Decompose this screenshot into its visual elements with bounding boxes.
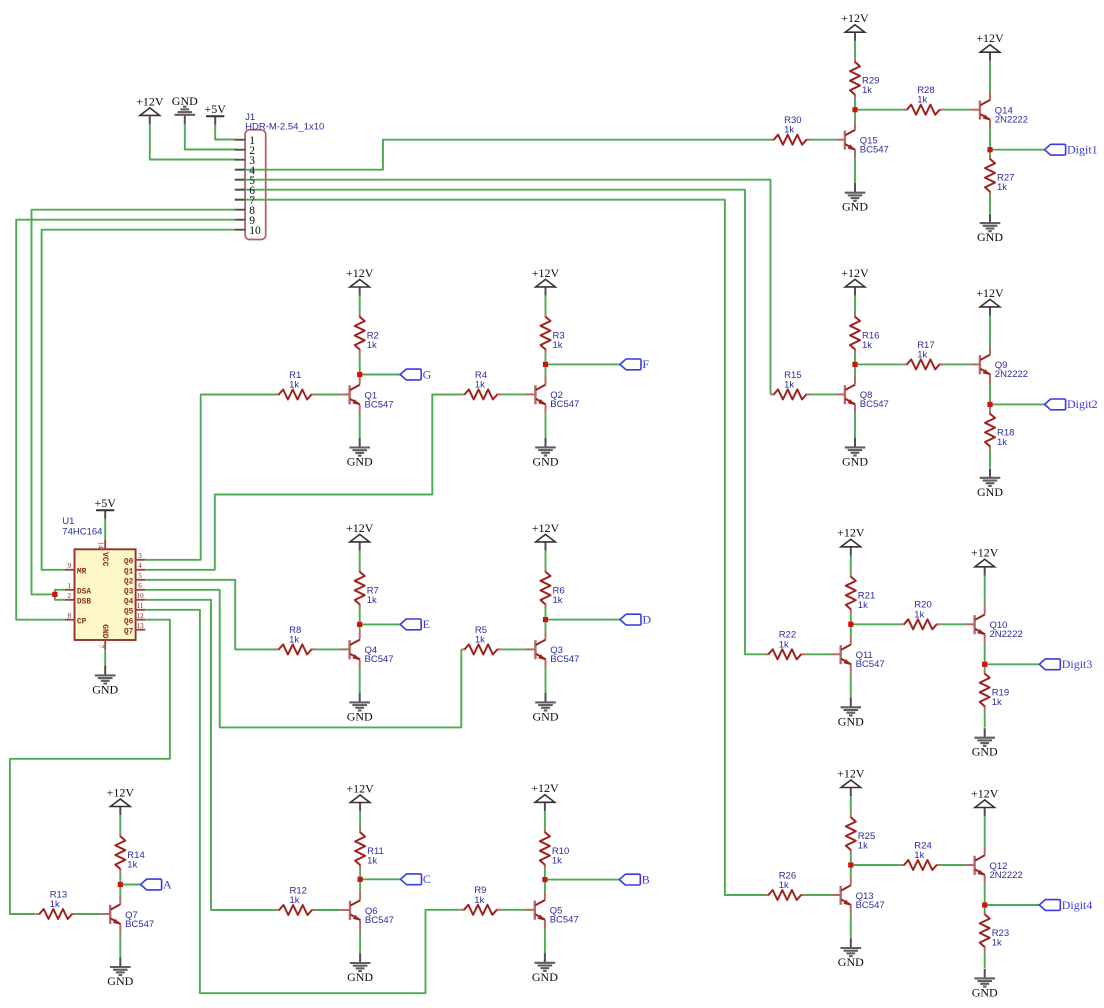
svg-text:Q0: Q0 — [124, 558, 134, 567]
wire Q11 emitter to ground — [850, 673, 852, 698]
wire Digit2 node to flag — [990, 403, 1045, 405]
resistor R20 — [901, 619, 941, 629]
power +5V near J1 — [204, 102, 226, 125]
wire +12V to Q12 collector — [984, 816, 986, 847]
svg-text:1k: 1k — [367, 595, 377, 606]
J1 pin 1 stub — [235, 139, 245, 141]
wire R25 to Q13 collector — [850, 854, 852, 877]
J1 pin 7 stub — [235, 199, 245, 201]
svg-text:5: 5 — [138, 572, 142, 580]
junction Q1 collector node — [357, 372, 362, 377]
wire R2 to Q1 collector — [359, 354, 361, 377]
transistor Q9 — [970, 346, 990, 383]
ground below Q8 — [842, 438, 868, 469]
resistor R1 — [276, 390, 316, 400]
wire R23 to ground — [984, 951, 986, 968]
wire J1 pin 6 to R22 (Digit3 drive) — [235, 190, 765, 655]
ground below R27 — [977, 214, 1003, 245]
svg-text:1k: 1k — [474, 895, 484, 906]
power +12V for Q4 — [346, 521, 374, 551]
wire Q1 emitter to ground — [359, 414, 361, 439]
wire R13 to Q7 base — [76, 913, 100, 915]
wire +12V to Q10 collector — [984, 576, 986, 607]
wire +12V to Q9 collector — [989, 316, 991, 347]
wire U1 Q1 to R4 (segment F) — [145, 395, 461, 570]
wire +12V to R29 — [854, 41, 856, 59]
svg-text:B: B — [642, 872, 650, 886]
svg-text:C: C — [423, 872, 431, 886]
resistor R27 — [985, 156, 995, 196]
wire R11 to Q6 collector — [359, 869, 361, 892]
U1 pin 1 (DSA) stub — [65, 589, 75, 591]
wire +12V to R3 — [545, 296, 547, 314]
resistor R5 — [461, 644, 501, 654]
junction Q8 collector node — [852, 362, 857, 367]
resistor R17 — [904, 359, 944, 369]
power +12V for Q6 — [346, 781, 374, 811]
wire R22 to Q11 base — [805, 653, 831, 655]
wire Q8 collector node to R17 — [855, 363, 904, 365]
resistor R13 — [36, 909, 76, 919]
power +12V for Q3 — [532, 521, 560, 551]
net flag F — [620, 357, 649, 371]
wire R14 to Q7 collector — [119, 873, 121, 896]
connector J1 HDR-M-2.54_1x10 — [245, 130, 266, 240]
resistor R26 — [765, 890, 805, 900]
svg-text:HDR-M-2.54_1x10: HDR-M-2.54_1x10 — [245, 122, 324, 133]
svg-text:Q1: Q1 — [124, 568, 134, 577]
U1 pin 2 (DSB) stub — [65, 599, 75, 601]
transistor Q15 — [835, 121, 855, 158]
transistor Q6 — [340, 892, 360, 929]
svg-text:1k: 1k — [917, 95, 927, 106]
wire Q3 emitter to ground — [545, 668, 547, 693]
junction U1 DSA/DSB tie — [52, 592, 57, 597]
svg-text:74HC164: 74HC164 — [62, 527, 102, 538]
wire Q4 collector node to flag E — [360, 623, 401, 625]
svg-text:1k: 1k — [914, 609, 924, 620]
svg-text:GND: GND — [107, 974, 133, 988]
wire Digit3 node to flag — [985, 663, 1040, 665]
power +12V for Q14 — [976, 31, 1004, 61]
wire R6 to Q3 collector — [545, 608, 547, 631]
transistor Q5 — [525, 892, 545, 929]
svg-text:+12V: +12V — [346, 781, 374, 795]
resistor R24 — [901, 860, 941, 870]
wire U1 DSA/DSB tie bracket — [55, 590, 65, 600]
net flag C — [401, 872, 431, 886]
power +12V for Q15 — [841, 11, 869, 41]
svg-text:1k: 1k — [475, 634, 485, 645]
svg-text:2N2222: 2N2222 — [990, 629, 1023, 640]
svg-text:1k: 1k — [290, 895, 300, 906]
transistor Q3 — [526, 631, 546, 668]
resistor R19 — [980, 670, 990, 710]
resistor R22 — [765, 649, 805, 659]
J1 pin 5 stub — [235, 179, 245, 181]
svg-text:Digit3: Digit3 — [1062, 657, 1093, 671]
power +12V for Q11 — [837, 526, 865, 556]
wire R16 to Q8 collector — [854, 353, 856, 376]
svg-text:1k: 1k — [367, 340, 377, 351]
wire Q6 emitter to ground — [359, 929, 361, 954]
net flag A — [141, 877, 172, 891]
svg-text:DSB: DSB — [77, 598, 91, 607]
wire R1 to Q1 base — [316, 394, 340, 396]
svg-text:1k: 1k — [992, 697, 1002, 708]
svg-text:2: 2 — [67, 592, 71, 600]
svg-text:1k: 1k — [917, 349, 927, 360]
junction Q7 collector node — [118, 882, 123, 887]
U1 pin 4 (Q1) stub — [136, 569, 146, 571]
wire Q15 emitter to ground — [854, 159, 856, 184]
junction Q6 collector node — [358, 877, 363, 882]
transistor Q8 — [835, 376, 855, 413]
svg-text:1k: 1k — [289, 634, 299, 645]
power +12V for Q9 — [976, 286, 1004, 316]
J1 pin 3 stub — [235, 159, 245, 161]
wire R30 to Q15 base — [811, 139, 836, 141]
svg-text:GND: GND — [533, 709, 559, 723]
wire R21 to Q11 collector — [850, 613, 852, 636]
wire R19 to ground — [984, 710, 986, 727]
junction Q15 collector node — [852, 107, 857, 112]
svg-text:BC547: BC547 — [550, 654, 579, 665]
transistor Q7 — [100, 896, 120, 933]
svg-text:GND: GND — [972, 745, 998, 759]
wire Digit3 node to R19 — [984, 664, 986, 670]
wire U1 Q3 to R5 (segment D) — [145, 590, 461, 728]
wire +12V to J1 pin 3 — [150, 124, 236, 160]
junction Q11 collector node — [848, 622, 853, 627]
wire Q6 collector node to flag C — [360, 878, 400, 880]
svg-text:Q2: Q2 — [124, 578, 134, 587]
U1 pin 3 (Q0) stub — [136, 559, 146, 561]
svg-text:1k: 1k — [862, 340, 872, 351]
junction Q5 collector node — [542, 877, 547, 882]
svg-text:F: F — [642, 357, 649, 371]
svg-text:BC547: BC547 — [550, 399, 579, 410]
wire R3 to Q2 collector — [545, 353, 547, 376]
ground below Q1 — [347, 438, 373, 469]
wire R29 to Q15 collector — [854, 99, 856, 122]
svg-text:Q4: Q4 — [124, 598, 134, 607]
wire U1 Q4 to R12 (segment C) — [145, 600, 276, 910]
resistor R3 — [541, 313, 551, 353]
power +12V for Q1 — [346, 266, 374, 296]
svg-text:E: E — [423, 617, 430, 631]
net flag Digit3 — [1039, 657, 1092, 671]
svg-text:Q5: Q5 — [124, 608, 134, 617]
svg-text:1k: 1k — [784, 125, 794, 136]
junction Digit2 node — [987, 402, 992, 407]
svg-text:6: 6 — [138, 582, 142, 590]
ground below Q3 — [533, 693, 559, 724]
wire Q13 emitter to ground — [850, 914, 852, 939]
power +12V for Q5 — [531, 781, 559, 811]
U1 pin 13 (Q7) stub — [136, 629, 146, 631]
svg-text:BC547: BC547 — [550, 915, 579, 926]
ground near J1 (power port) — [172, 94, 198, 124]
svg-text:+12V: +12V — [532, 521, 560, 535]
ground below R23 — [972, 969, 998, 1000]
svg-text:BC547: BC547 — [365, 654, 394, 665]
U1 pin 8 (CP) stub — [65, 619, 75, 621]
svg-text:2N2222: 2N2222 — [990, 870, 1023, 881]
J1 pin 2 stub — [235, 149, 245, 151]
svg-text:BC547: BC547 — [860, 399, 889, 410]
wire +12V to R6 — [545, 551, 547, 569]
transistor Q11 — [831, 636, 851, 673]
junction Q3 collector node — [543, 617, 548, 622]
wire +12V to R10 — [544, 811, 546, 829]
svg-text:10: 10 — [137, 592, 145, 600]
resistor R4 — [461, 389, 501, 399]
wire Q7 emitter to ground — [119, 933, 121, 958]
svg-text:1: 1 — [67, 582, 71, 590]
svg-text:4: 4 — [138, 562, 142, 570]
resistor R2 — [355, 314, 365, 354]
svg-text:CP: CP — [77, 618, 87, 627]
power +12V for Q10 — [971, 546, 999, 576]
net flag Digit2 — [1045, 397, 1098, 411]
svg-text:BC547: BC547 — [856, 900, 885, 911]
wire U1 GND pin to ground — [104, 650, 106, 667]
svg-text:D: D — [642, 612, 651, 626]
svg-text:1k: 1k — [779, 880, 789, 891]
svg-text:1k: 1k — [997, 182, 1007, 193]
svg-text:+12V: +12V — [136, 94, 164, 108]
svg-text:GND: GND — [347, 455, 373, 469]
svg-text:+12V: +12V — [976, 31, 1004, 45]
svg-text:1k: 1k — [552, 855, 562, 866]
wire Q5 collector node to flag B — [545, 879, 619, 881]
net flag E — [400, 617, 430, 631]
U1 pin 6 (Q3) stub — [136, 589, 146, 591]
power +12V for Q2 — [532, 266, 560, 296]
wire J1 pin 9 to U1 CP — [16, 220, 235, 620]
junction Q13 collector node — [848, 862, 853, 867]
net flag D — [620, 612, 651, 626]
wire R10 to Q5 collector — [544, 869, 546, 892]
svg-text:10: 10 — [249, 225, 261, 237]
svg-text:Q7: Q7 — [124, 628, 134, 637]
wire +12V to R7 — [359, 551, 361, 569]
svg-text:1k: 1k — [553, 340, 563, 351]
wire Digit2 node to R18 — [989, 404, 991, 410]
wire R8 to Q4 base — [316, 648, 340, 650]
svg-text:+12V: +12V — [531, 781, 559, 795]
wire R24 to Q12 base — [941, 864, 965, 866]
wire Q8 emitter to ground — [854, 413, 856, 438]
svg-text:+12V: +12V — [346, 266, 374, 280]
transistor Q4 — [340, 631, 360, 668]
resistor R11 — [355, 829, 365, 869]
wire Q7 collector node to flag A — [120, 884, 140, 886]
svg-text:GND: GND — [977, 485, 1003, 499]
U1 pin 12 (Q6) stub — [136, 619, 146, 621]
net flag G — [400, 367, 431, 381]
J1 pin 6 stub — [235, 189, 245, 191]
ground below Q2 — [533, 438, 559, 469]
transistor Q10 — [965, 606, 985, 643]
wire Q10 emitter to Digit3 node — [984, 643, 986, 664]
svg-text:1k: 1k — [50, 899, 60, 910]
svg-text:DSA: DSA — [77, 588, 91, 597]
svg-text:Q6: Q6 — [124, 618, 134, 627]
wire R27 to ground — [989, 196, 991, 213]
resistor R9 — [461, 905, 501, 915]
svg-text:13: 13 — [137, 622, 145, 630]
svg-text:Digit4: Digit4 — [1062, 898, 1093, 912]
wire Q12 emitter to Digit4 node — [984, 884, 986, 905]
svg-text:1k: 1k — [553, 595, 563, 606]
svg-text:1k: 1k — [997, 437, 1007, 448]
wire +12V to R11 — [359, 811, 361, 829]
resistor R29 — [850, 59, 860, 99]
wire +5V to J1 pin 1 — [215, 124, 235, 139]
svg-text:2N2222: 2N2222 — [995, 115, 1028, 126]
wire Q4 emitter to ground — [359, 668, 361, 693]
resistor R6 — [541, 568, 551, 608]
wire +12V to Q14 collector — [989, 61, 991, 92]
svg-text:BC547: BC547 — [856, 659, 885, 670]
svg-text:8: 8 — [67, 612, 71, 620]
resistor R28 — [904, 105, 944, 115]
svg-text:MR: MR — [77, 568, 87, 577]
svg-text:+12V: +12V — [346, 521, 374, 535]
svg-text:+12V: +12V — [971, 786, 999, 800]
svg-text:Digit1: Digit1 — [1067, 143, 1098, 157]
wire R5 to Q3 base — [501, 648, 525, 650]
wire U1 Q6 to R13 (segment A) — [10, 620, 170, 914]
svg-text:1k: 1k — [779, 639, 789, 650]
resistor R21 — [846, 573, 856, 613]
junction Digit1 node — [987, 147, 992, 152]
svg-text:GND: GND — [172, 94, 198, 108]
svg-text:GND: GND — [842, 454, 868, 468]
ground below Q5 — [532, 953, 558, 984]
svg-text:VCC: VCC — [100, 552, 109, 566]
svg-text:Q3: Q3 — [124, 588, 134, 597]
wire U1 Q5 to R9 (segment B) — [145, 610, 460, 993]
svg-text:+12V: +12V — [107, 785, 135, 799]
ground below Q6 — [347, 954, 373, 985]
wire Q9 emitter to Digit2 node — [989, 383, 991, 404]
svg-text:1k: 1k — [858, 600, 868, 611]
transistor Q12 — [965, 847, 985, 884]
svg-text:BC547: BC547 — [860, 145, 889, 156]
J1 pin 10 stub — [235, 229, 245, 231]
wire R15 to Q8 base — [811, 393, 836, 395]
wire J1 pin 7 to R26 (Digit4 drive) — [235, 200, 765, 895]
wire Q1 collector node to flag G — [360, 374, 401, 376]
wire GND to J1 pin 2 — [185, 124, 236, 150]
IC U1 74HC164 — [75, 549, 136, 640]
wire Q11 collector node to R20 — [851, 623, 901, 625]
wire R26 to Q13 base — [805, 894, 831, 896]
net flag B — [619, 872, 649, 886]
svg-text:Digit2: Digit2 — [1067, 397, 1098, 411]
wire +12V to R16 — [854, 296, 856, 314]
U1 pin 10 (Q4) stub — [136, 599, 146, 601]
ground below Q13 — [838, 939, 864, 970]
svg-text:BC547: BC547 — [365, 399, 394, 410]
J1 pin 8 stub — [235, 209, 245, 211]
svg-text:GND: GND — [347, 709, 373, 723]
svg-text:G: G — [423, 367, 432, 381]
svg-text:1k: 1k — [367, 856, 377, 867]
svg-text:1k: 1k — [914, 850, 924, 861]
svg-text:1k: 1k — [862, 85, 872, 96]
wire Q13 collector node to R24 — [851, 864, 901, 866]
power +12V near J1 — [136, 94, 164, 124]
resistor R25 — [846, 814, 856, 854]
ground below Q11 — [838, 698, 864, 729]
wire U1 Q2 to R8 (segment E) — [145, 580, 275, 650]
svg-text:+12V: +12V — [976, 286, 1004, 300]
U1 pin 11 (Q5) stub — [136, 609, 146, 611]
junction Q4 collector node — [357, 622, 362, 627]
ground below Q7 — [107, 958, 133, 989]
svg-text:+12V: +12V — [837, 526, 865, 540]
transistor Q13 — [831, 877, 851, 914]
ground below Q4 — [347, 693, 373, 724]
wire +12V to R14 — [119, 815, 121, 833]
wire R28 to Q14 base — [944, 109, 971, 111]
wire R4 to Q2 base — [501, 393, 525, 395]
transistor Q2 — [526, 376, 546, 413]
junction Digit4 node — [982, 902, 987, 907]
svg-text:+12V: +12V — [841, 11, 869, 25]
power +12V for Q7 — [107, 785, 135, 815]
transistor Q14 — [970, 91, 990, 128]
svg-text:11: 11 — [137, 602, 144, 610]
svg-text:9: 9 — [67, 562, 71, 570]
svg-text:1k: 1k — [858, 841, 868, 852]
svg-text:12: 12 — [137, 612, 145, 620]
U1 pin 7 (GND) stub — [104, 640, 106, 650]
wire +12V to R2 — [359, 296, 361, 314]
resistor R15 — [771, 389, 811, 399]
svg-text:1k: 1k — [992, 938, 1002, 949]
svg-text:GND: GND — [532, 970, 558, 984]
svg-text:GND: GND — [972, 985, 998, 999]
wire Q5 emitter to ground — [544, 929, 546, 954]
wire R17 to Q9 base — [944, 363, 971, 365]
wire U1 Q0 to R1 (segment G) — [145, 395, 275, 560]
J1 pin 9 stub — [235, 219, 245, 221]
svg-text:GND: GND — [838, 955, 864, 969]
wire J1 pin 4 to R30 (Digit1 drive) — [235, 140, 771, 170]
resistor R7 — [355, 568, 365, 608]
power +12V for Q13 — [837, 766, 865, 796]
wire Digit1 node to R27 — [989, 150, 991, 156]
resistor R16 — [850, 313, 860, 353]
wire R18 to ground — [989, 450, 991, 467]
svg-text:3: 3 — [138, 552, 142, 560]
wire R20 to Q10 base — [941, 623, 965, 625]
resistor R10 — [540, 829, 550, 869]
svg-text:A: A — [163, 877, 172, 891]
svg-text:1k: 1k — [475, 379, 485, 390]
ground below U1 — [92, 666, 118, 697]
J1 pin 4 stub — [235, 169, 245, 171]
wire +5V to U1 VCC — [104, 518, 106, 539]
svg-text:+12V: +12V — [841, 266, 869, 280]
svg-text:U1: U1 — [62, 516, 74, 527]
svg-text:GND: GND — [100, 624, 109, 638]
